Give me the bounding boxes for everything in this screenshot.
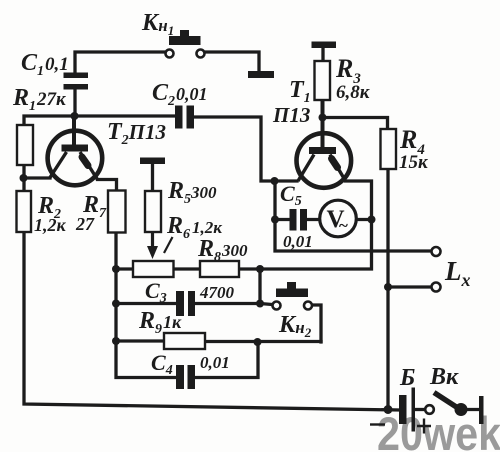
svg-text:15к: 15к <box>399 152 429 173</box>
node dot rail R4 <box>384 405 393 414</box>
push button Kn2 <box>273 282 313 310</box>
svg-text:С10,1: С10,1 <box>21 50 69 79</box>
node dot C5 left <box>271 216 279 224</box>
svg-text:0,01: 0,01 <box>283 232 313 251</box>
svg-text:С4: С4 <box>151 350 173 378</box>
svg-text:С20,01: С20,01 <box>152 80 208 109</box>
switch Vk <box>425 393 483 425</box>
resistor R7 <box>108 191 126 233</box>
wire C3 left lead <box>116 302 176 305</box>
node dot C3 right <box>256 300 264 308</box>
wire R5 stem from power bar <box>151 164 154 191</box>
svg-text:Вк: Вк <box>429 364 459 390</box>
wire base rail y116 R1 to C2 <box>24 116 176 125</box>
wire T2 collector to left node <box>24 176 51 179</box>
wire R9 right to Kn2 vertical <box>205 340 321 343</box>
svg-text:1,2к: 1,2к <box>34 215 67 235</box>
svg-text:4700: 4700 <box>199 283 235 302</box>
svg-text:Т2П13: Т2П13 <box>107 119 166 148</box>
wire R3 stem top bar <box>321 48 324 61</box>
node dot base T2 <box>71 112 79 120</box>
wire R7 bottom down to C4 left <box>116 233 176 378</box>
wire switch pivot to terminal <box>461 408 479 411</box>
battery B <box>370 388 431 434</box>
wire R6 left lead <box>116 267 133 270</box>
svg-text:Кн2: Кн2 <box>278 312 312 340</box>
svg-text:27: 27 <box>75 214 95 234</box>
transistor T2 <box>48 131 103 186</box>
svg-text:Lx: Lx <box>444 256 471 290</box>
resistor R3 <box>315 61 331 100</box>
wire R9 left lead <box>116 339 164 342</box>
wire C1 top to Kn1 left <box>75 52 165 74</box>
resistor R1 <box>17 125 33 165</box>
svg-text:Б: Б <box>399 365 415 391</box>
node dot R7 line y303 <box>112 300 120 308</box>
capacitor C5 plates <box>290 209 297 231</box>
potentiometer R6 wiper arrow <box>147 232 158 259</box>
transistor T1 <box>297 133 352 188</box>
pointer slash for R6 label <box>164 237 173 253</box>
node dot R1/R2/collector <box>20 174 28 182</box>
node dot R8 wire x260 <box>256 265 264 273</box>
wire T2 base lead <box>72 116 76 145</box>
wire R4 bottom down to ground rail <box>386 169 389 410</box>
wire C2 right to T1 emitter node <box>194 117 298 181</box>
node dot R7 line y270 <box>112 265 120 273</box>
wire R6 to R8 <box>174 267 201 270</box>
node dot V right <box>368 216 376 224</box>
wire battery to switch contact <box>415 408 425 411</box>
svg-text:R5300: R5300 <box>167 178 217 207</box>
node dot C4/R9 right <box>254 338 262 346</box>
wire vertical x275 emitter node down to Lx upper wire <box>275 181 431 251</box>
resistor R9 <box>164 333 205 349</box>
node dot T1 base <box>319 114 327 122</box>
terminal Lx lower <box>432 283 441 292</box>
node dot Lx lower <box>384 283 392 291</box>
capacitor C2 plates <box>175 106 183 129</box>
wire node x260 down to C3 level <box>258 269 261 304</box>
wire C1 bottom to base node <box>73 88 76 116</box>
wire C3 right to Kn2 left contact <box>195 304 272 305</box>
power bar terminal R3 <box>312 42 337 49</box>
svg-text:0,01: 0,01 <box>200 353 230 372</box>
resistor R6 potentiometer <box>133 261 174 277</box>
resistor R8 <box>200 261 239 277</box>
wire Lx lower <box>388 285 431 288</box>
power bar terminal R5 <box>140 158 165 165</box>
svg-text:П13: П13 <box>272 103 310 127</box>
svg-text:С3: С3 <box>145 278 167 306</box>
wire T1 collector down to R8 output <box>239 181 372 269</box>
resistor R5 <box>145 191 161 232</box>
node dot R9 left <box>112 337 120 345</box>
svg-text:R127к: R127к <box>12 85 67 114</box>
push button Kn1 <box>166 30 205 58</box>
wire node to R4 top <box>323 118 388 130</box>
plus mark <box>417 419 431 434</box>
node dot emitter junction <box>271 177 279 185</box>
resistor R2 <box>17 191 32 232</box>
resistor R4 <box>381 129 397 169</box>
wire voltmeter right to collector line <box>357 218 372 221</box>
wire C5 left lead <box>275 218 290 221</box>
wire R1 bottom to node to R2 <box>22 165 25 191</box>
wire Kn2 right contact down to R9 wire <box>313 305 322 342</box>
wire C5 right to voltmeter <box>307 218 321 221</box>
wire T2 emitter to R7 <box>98 180 117 191</box>
svg-text:С5: С5 <box>280 181 302 209</box>
wire R2 bottom down and ground rail <box>24 232 399 410</box>
terminal Lx upper <box>432 247 441 256</box>
wire C4 right up to R9 wire <box>195 342 258 378</box>
svg-text:Т1: Т1 <box>289 77 311 106</box>
svg-text:6,8к: 6,8к <box>336 82 371 103</box>
capacitor C4 plates <box>176 365 184 389</box>
svg-text:Кн1: Кн1 <box>141 10 174 38</box>
wire Kn1 right to power bar stem <box>205 52 260 71</box>
wire R3 bottom through node to T1 base <box>321 100 325 147</box>
capacitor C3 plates <box>176 291 184 316</box>
power bar terminal Kn1 <box>248 71 274 78</box>
voltmeter V~ <box>320 200 357 237</box>
svg-text:~: ~ <box>339 216 348 235</box>
capacitor C1 plates <box>64 73 89 79</box>
minus mark <box>370 423 385 425</box>
